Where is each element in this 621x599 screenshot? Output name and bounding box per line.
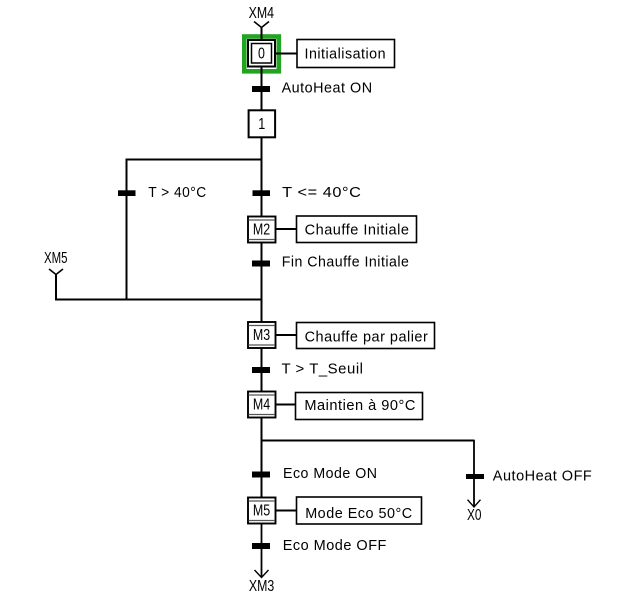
svg-text:AutoHeat OFF: AutoHeat OFF [493, 469, 593, 485]
svg-text:M3: M3 [253, 327, 270, 344]
svg-text:1: 1 [258, 116, 265, 133]
svg-text:Chauffe Initiale: Chauffe Initiale [305, 222, 410, 238]
svg-text:Eco Mode ON: Eco Mode ON [283, 466, 378, 482]
svg-text:XM4: XM4 [249, 5, 275, 22]
svg-text:XM5: XM5 [44, 250, 68, 267]
svg-text:X0: X0 [467, 507, 482, 524]
svg-text:Chauffe par palier: Chauffe par palier [305, 330, 429, 346]
svg-text:Fin Chauffe Initiale: Fin Chauffe Initiale [282, 255, 410, 271]
svg-text:T > 40°C: T > 40°C [148, 185, 207, 201]
svg-text:0: 0 [258, 45, 265, 62]
svg-text:AutoHeat ON: AutoHeat ON [282, 81, 373, 97]
svg-text:M2: M2 [253, 222, 270, 239]
svg-text:XM3: XM3 [249, 578, 274, 595]
svg-text:M5: M5 [253, 502, 270, 519]
svg-text:T <= 40°C: T <= 40°C [282, 185, 361, 201]
svg-text:Eco Mode OFF: Eco Mode OFF [283, 538, 387, 554]
svg-text:Initialisation: Initialisation [305, 46, 387, 62]
svg-text:M4: M4 [253, 397, 271, 414]
svg-text:Mode Eco 50°C: Mode Eco 50°C [305, 506, 413, 522]
svg-text:T > T_Seuil: T > T_Seuil [282, 361, 364, 377]
svg-text:Maintien à 90°C: Maintien à 90°C [304, 398, 416, 414]
